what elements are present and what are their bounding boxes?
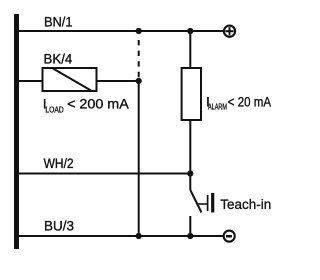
svg-text:Teach-in: Teach-in: [220, 196, 271, 212]
svg-text:BU/3: BU/3: [44, 217, 74, 233]
svg-text:< 20 mA: < 20 mA: [228, 93, 272, 109]
svg-text:ALARM: ALARM: [208, 103, 227, 112]
svg-text:< 200 mA: < 200 mA: [67, 96, 129, 112]
svg-text:BN/1: BN/1: [44, 13, 73, 29]
svg-text:LOAD: LOAD: [45, 106, 63, 115]
svg-text:BK/4: BK/4: [44, 51, 73, 67]
svg-text:WH/2: WH/2: [44, 155, 74, 171]
